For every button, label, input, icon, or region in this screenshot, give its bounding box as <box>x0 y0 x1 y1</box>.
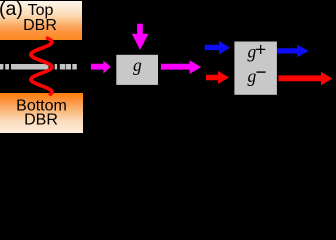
quantum well dashed line <box>0 64 77 70</box>
upper input arrow (blue) <box>205 41 230 55</box>
svg-text:g: g <box>248 66 257 86</box>
top DBR mirror <box>0 1 82 40</box>
lower input arrow (red) <box>206 71 229 84</box>
lower output arrow (red) <box>278 72 332 85</box>
cavity photon mode (red standing wave) <box>31 38 52 94</box>
upper output arrow (blue) <box>277 45 309 57</box>
svg-text:(a): (a) <box>0 0 23 20</box>
svg-text:DBR: DBR <box>23 17 57 34</box>
svg-text:DBR: DBR <box>24 112 58 129</box>
coupling arrow cavity to g (magenta, right) <box>91 61 111 74</box>
coupling box g <box>116 55 158 85</box>
pump arrow (magenta, down) <box>132 24 149 50</box>
svg-text:g: g <box>133 55 142 75</box>
splitter box g+ g- <box>234 42 277 95</box>
bottom DBR mirror <box>0 93 83 133</box>
arrow g to splitter (magenta, right) <box>161 60 201 74</box>
svg-text:g: g <box>248 41 257 61</box>
